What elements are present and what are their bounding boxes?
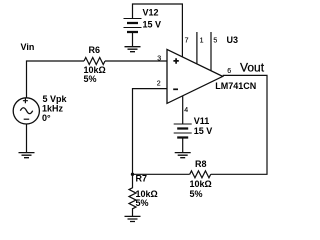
- node A junction dot: [131, 173, 134, 176]
- resistor R6: [84, 58, 105, 65]
- svg-text:R7: R7: [136, 174, 148, 184]
- pin 5 stub: [210, 32, 212, 71]
- svg-text:U3: U3: [227, 35, 239, 45]
- ground below V12: [125, 47, 141, 52]
- svg-text:0°: 0°: [42, 113, 51, 123]
- op-amp U3 triangle: [167, 49, 223, 103]
- svg-text:10kΩ: 10kΩ: [190, 179, 212, 189]
- svg-text:5 Vpk: 5 Vpk: [43, 94, 68, 104]
- V10 minus sign: [24, 118, 30, 120]
- svg-text:LM741CN: LM741CN: [215, 81, 256, 91]
- svg-text:Vin: Vin: [21, 42, 35, 52]
- pin 1 stub: [196, 32, 198, 64]
- resistor R8: [190, 171, 211, 178]
- voltage source V10 circle: [13, 98, 39, 124]
- svg-text:15 V: 15 V: [194, 126, 213, 136]
- wire R6 to pin 3: [105, 60, 167, 62]
- battery V11: [174, 124, 192, 152]
- V10 sine wave: [20, 108, 32, 114]
- wire pin 2 feedback to node A: [133, 89, 168, 175]
- svg-text:R8: R8: [195, 159, 207, 169]
- svg-text:R6: R6: [89, 45, 101, 55]
- ground below V10: [19, 153, 35, 158]
- resistor R7: [129, 174, 136, 216]
- svg-text:5%: 5%: [84, 74, 97, 84]
- svg-text:5%: 5%: [190, 189, 203, 199]
- svg-text:V12: V12: [143, 8, 159, 18]
- svg-text:1: 1: [200, 37, 204, 44]
- svg-text:6: 6: [227, 68, 231, 75]
- svg-text:5: 5: [213, 37, 217, 44]
- svg-text:V11: V11: [194, 116, 210, 126]
- pin 4 wire: [182, 96, 184, 124]
- svg-text:Vout: Vout: [240, 60, 265, 74]
- svg-text:2: 2: [157, 80, 161, 87]
- svg-text:5%: 5%: [136, 198, 149, 208]
- svg-text:3: 3: [157, 55, 161, 62]
- op-amp plus input mark: [173, 58, 178, 64]
- svg-text:1kHz: 1kHz: [42, 104, 64, 114]
- op-amp minus input mark: [173, 88, 178, 90]
- svg-text:15 V: 15 V: [143, 19, 162, 29]
- wire V10 to ground: [26, 124, 28, 152]
- wire R7 to ground: [125, 216, 141, 221]
- wire V12 to pin 7: [133, 4, 183, 57]
- wire Vin node to R6: [27, 61, 85, 98]
- ground below V11: [175, 153, 191, 158]
- battery V12: [124, 19, 142, 47]
- svg-text:7: 7: [185, 37, 189, 44]
- wire output pin 6 to R8: [211, 75, 267, 174]
- svg-text:4: 4: [184, 107, 188, 114]
- V10 plus sign: [23, 98, 28, 103]
- wire node A to R8: [133, 173, 190, 175]
